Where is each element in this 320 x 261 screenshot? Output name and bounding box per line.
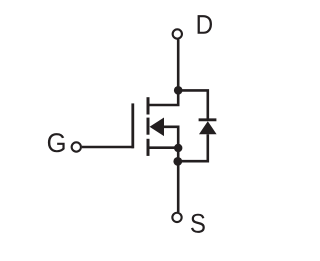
transistor Q1 (N-channel MOSFET) (133, 97, 164, 156)
terminal circle S (172, 213, 181, 222)
terminal circle G (72, 142, 81, 151)
label D (198, 15, 212, 34)
junction dot: source/diode-anode node (173, 157, 182, 166)
terminal circle D (173, 29, 182, 38)
diode D1 (body diode) (199, 120, 217, 134)
label S (191, 214, 205, 233)
channel source contact segment (147, 139, 150, 156)
label G (48, 133, 65, 152)
wire: gate lead from G terminal (82, 146, 134, 149)
wire: drain terminal to top junction, down to drain contact (148, 39, 178, 105)
wire: source contact to source junction (149, 146, 178, 149)
channel drain contact segment (147, 97, 150, 114)
wire: top junction to diode cathode (right branch) (178, 90, 208, 118)
body arrow (points into channel: N-channel) (150, 118, 164, 137)
diode anode triangle (199, 121, 217, 134)
gate electrode vertical bar (131, 103, 134, 148)
wire: diode anode branch (178, 134, 208, 161)
channel body contact segment (147, 118, 150, 135)
diode cathode bar (199, 118, 217, 121)
wire: body/arrow wire to source junction (163, 127, 178, 148)
wire: source junction down through diode junction to S terminal (177, 146, 180, 212)
junction dot: source/body node (174, 144, 182, 152)
junction dot: drain/diode node (174, 86, 183, 95)
